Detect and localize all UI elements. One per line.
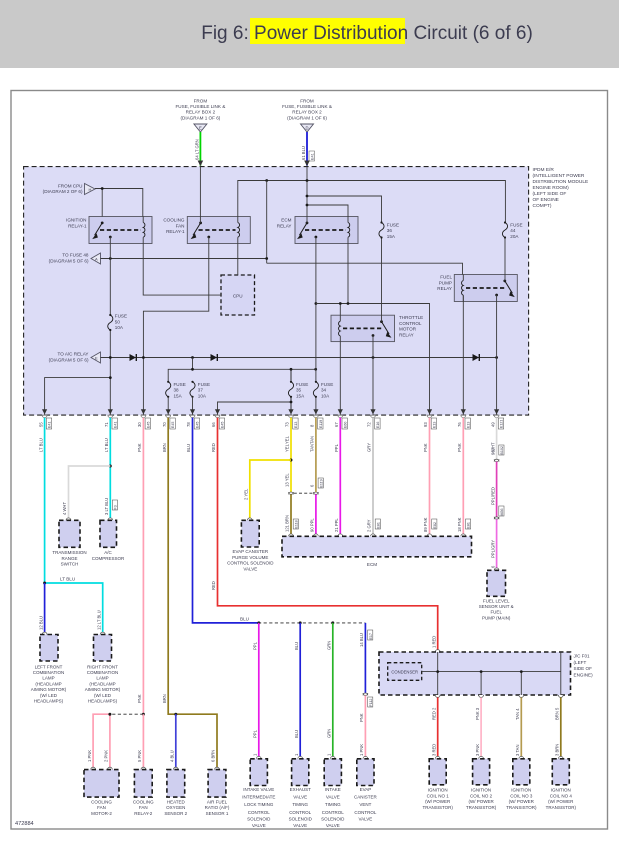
IPDM E/R label (533, 167, 589, 209)
svg-text:E13: E13 (466, 422, 470, 428)
svg-text:M36: M36 (500, 509, 504, 516)
svg-text:TO A/C RELAY: TO A/C RELAY (58, 352, 89, 357)
pin 66 (E45) RED (211, 409, 224, 452)
fuse F36 15A (379, 223, 384, 238)
svg-text:TRANSISTOR): TRANSISTOR) (546, 805, 577, 810)
wire 61 BLU (vertical, into IPDM) (306, 132, 308, 166)
svg-text:COIL NO 3: COIL NO 3 (510, 793, 533, 798)
pin 71 (E41) LT BLU (104, 409, 117, 452)
wire YEL pin73 to purge valve and ECM (290, 418, 292, 492)
wire BLU tail to evap vent valve (364, 623, 366, 693)
svg-text:FUSE, FUSIBLE LINK &: FUSE, FUSIBLE LINK & (176, 104, 226, 109)
svg-text:(LEFT: (LEFT (574, 660, 587, 665)
svg-text:1 RED: 1 RED (431, 636, 436, 648)
connector arrow D (from fuse box, right) (282, 99, 332, 133)
wire PNK to cooling fan relay-2 (142, 714, 144, 769)
svg-text:E60: E60 (343, 422, 347, 428)
wire splice link (dashed) (110, 713, 143, 715)
svg-text:E121: E121 (500, 420, 504, 428)
wire PPL pin67 to ECM pin 21 (339, 418, 341, 536)
svg-text:DISTRIBUTION MODULE: DISTRIBUTION MODULE (533, 179, 589, 185)
svg-text:(W/ LED: (W/ LED (40, 693, 58, 698)
svg-text:3 TAN: 3 TAN (515, 745, 520, 756)
svg-text:COOLING: COOLING (133, 800, 154, 805)
svg-text:30: 30 (137, 422, 142, 427)
svg-text:LOCK TIMING: LOCK TIMING (244, 802, 274, 807)
J/C bottom pins (435, 695, 563, 697)
svg-text:(HEADLAMP: (HEADLAMP (35, 681, 61, 686)
svg-text:38: 38 (174, 388, 180, 393)
svg-text:FUSE: FUSE (174, 382, 186, 387)
svg-text:2 YEL: 2 YEL (244, 488, 249, 500)
wire PPL to ECM pin 90 (315, 494, 317, 536)
svg-text:A/C: A/C (104, 550, 112, 555)
svg-text:TRANSISTOR): TRANSISTOR) (466, 805, 497, 810)
wire PNK to cooling fan motor pins (93, 714, 110, 769)
svg-text:12 LT BLU: 12 LT BLU (96, 610, 101, 630)
svg-text:ENGINE): ENGINE) (574, 672, 594, 677)
svg-text:2 PNK: 2 PNK (104, 750, 109, 762)
svg-text:90 PPL: 90 PPL (310, 518, 315, 532)
motor COOLING FAN MOTOR-2 (84, 767, 119, 816)
svg-text:LT BLU: LT BLU (38, 438, 43, 452)
svg-text:IGNITION: IGNITION (551, 788, 571, 793)
svg-text:36: 36 (387, 228, 393, 233)
wire fuel pump coil to pin 76 (462, 295, 464, 415)
wire GRY pin72 to ECM pin 2 (372, 418, 374, 536)
svg-text:BRN: BRN (162, 694, 167, 703)
relay THROTTLE CONTROL MOTOR RELAY (331, 315, 423, 342)
svg-text:FUSE: FUSE (510, 222, 522, 227)
valve EXHAUST VALVE TIMING CONTROL SOLENOID VALVE (289, 756, 313, 828)
svg-text:3 LT BLU: 3 LT BLU (104, 498, 109, 515)
svg-text:4 BLU: 4 BLU (170, 750, 175, 762)
svg-text:FUSE: FUSE (198, 382, 210, 387)
svg-text:COOLING: COOLING (163, 218, 185, 223)
svg-text:COMBINATION: COMBINATION (87, 670, 118, 675)
svg-text:E41: E41 (113, 422, 117, 428)
svg-text:(DIAGRAM 1 OF 6): (DIAGRAM 1 OF 6) (287, 115, 327, 120)
svg-text:FUEL: FUEL (440, 275, 452, 280)
wire fuse bus feed (168, 358, 316, 382)
svg-text:E16: E16 (376, 422, 380, 428)
svg-text:VALVE: VALVE (326, 823, 340, 828)
svg-text:ECM: ECM (281, 218, 291, 223)
ignition coil IGNITION COIL NO 3 (506, 756, 537, 809)
svg-text:IGNITION: IGNITION (66, 218, 86, 223)
svg-text:GRY: GRY (367, 443, 372, 452)
motor A/C COMPRESSOR (92, 518, 125, 561)
svg-text:CONTROL: CONTROL (354, 810, 376, 815)
svg-text:HEADLAMPS): HEADLAMPS) (34, 699, 64, 704)
wire PNK pin93 to ECM pin 89 (429, 418, 431, 536)
svg-text:472884: 472884 (15, 821, 34, 827)
wire fuel pump contact to pin 49 (496, 295, 498, 415)
wire BLU to heated oxygen sensor 2 (175, 714, 177, 769)
lamp LEFT FRONT COMBINATION (31, 632, 67, 703)
svg-text:FUSE: FUSE (296, 382, 308, 387)
svg-text:E13: E13 (433, 422, 437, 428)
svg-text:(HEADLAMP: (HEADLAMP (89, 681, 115, 686)
arrow FROM CPU (DIAGRAM 2 OF 6) (43, 183, 95, 194)
svg-text:E45: E45 (146, 422, 150, 428)
svg-text:49: 49 (490, 422, 495, 427)
svg-text:5 PNK: 5 PNK (137, 750, 142, 762)
svg-text:LT BLU: LT BLU (104, 438, 109, 452)
svg-text:71: 71 (104, 422, 109, 427)
wire PNK pin76 to ECM pin 18 (462, 418, 464, 536)
svg-text:PUMP: PUMP (439, 280, 452, 285)
svg-text:LAMP: LAMP (96, 676, 108, 681)
svg-text:TRANSISTOR): TRANSISTOR) (422, 805, 453, 810)
wire RED pin66 to J/C F01 (218, 418, 438, 652)
junction box J/C F01 (379, 650, 593, 695)
fuse F44 20A (502, 223, 507, 238)
wire y303 ECM contact to throttle coil and pin 93 (316, 244, 430, 416)
wire LT BLU pin71 to A/C compressor (109, 418, 111, 520)
svg-text:VALVE: VALVE (293, 795, 307, 800)
svg-text:(W/ POWER: (W/ POWER (468, 799, 494, 804)
svg-text:COMBINATION: COMBINATION (33, 670, 64, 675)
wire branch to FUSE 36 (307, 196, 382, 223)
svg-text:E45: E45 (221, 422, 225, 428)
svg-text:FAN: FAN (176, 223, 185, 228)
svg-text:CONDENSER: CONDENSER (391, 670, 418, 675)
svg-text:HEATED: HEATED (167, 800, 186, 805)
wire ignition relay contact down through FUSE 50 to pin 71 (109, 237, 111, 415)
wire throttle coil to pin 67 (339, 342, 341, 415)
svg-text:(W/ POWER: (W/ POWER (548, 799, 574, 804)
svg-text:PUMP (MAIN): PUMP (MAIN) (482, 615, 511, 620)
svg-text:LAMP: LAMP (42, 676, 54, 681)
svg-text:TAN 4: TAN 4 (515, 708, 520, 720)
svg-text:CONTROL: CONTROL (248, 810, 270, 815)
svg-text:3 PNK: 3 PNK (475, 744, 480, 756)
wire BLU pin78 rail to valves (193, 418, 259, 623)
fuse F37 10A (190, 382, 195, 397)
svg-text:VALVE: VALVE (293, 823, 307, 828)
switch TRANSMISSION RANGE SWITCH (52, 518, 86, 567)
ignition coil IGNITION COIL NO 2 (466, 756, 497, 809)
valve INTAKE VALVE INTERMEDIATE LOCK TIMING CONTROL SOLENOID VALVE (242, 756, 275, 828)
wire PPL/RED segment (496, 462, 498, 517)
relay IGNITION RELAY-1 (66, 217, 152, 244)
svg-text:E41: E41 (310, 153, 314, 160)
svg-text:(W/ LED: (W/ LED (94, 693, 112, 698)
svg-text:INTAKE: INTAKE (325, 787, 341, 792)
svg-text:GRN: GRN (327, 729, 332, 738)
svg-text:FUSE: FUSE (387, 222, 399, 227)
wire cooling fan coil to CPU (237, 244, 239, 276)
wire PPL to intake valve intermediate lock (258, 623, 260, 759)
wire BLU to left lamp (44, 583, 46, 634)
relay FUEL PUMP RELAY (437, 275, 517, 302)
diode D1 on A/C rail (130, 354, 137, 361)
svg-text:76: 76 (457, 422, 462, 427)
svg-text:THROTTLE: THROTTLE (399, 315, 423, 320)
pin 72 (E16) GRY (367, 409, 380, 452)
svg-text:4 WHT: 4 WHT (62, 502, 67, 515)
svg-text:RED: RED (211, 443, 216, 452)
svg-text:YEL: YEL (285, 435, 290, 444)
svg-text:COIL NO 1: COIL NO 1 (427, 793, 450, 798)
svg-text:37: 37 (198, 388, 204, 393)
svg-text:89 PNK: 89 PNK (423, 517, 428, 532)
pin 78 (E45) BLU (186, 409, 199, 452)
svg-text:RELAY-2: RELAY-2 (134, 811, 153, 816)
svg-text:RELAY: RELAY (437, 286, 452, 291)
svg-text:61 BLU: 61 BLU (301, 146, 306, 160)
diode D3 on A/C rail (473, 354, 480, 361)
pin 30 (E45) PNK (137, 409, 150, 452)
svg-text:CONTROL SOLENOID: CONTROL SOLENOID (227, 561, 274, 566)
svg-text:TRANSMISSION: TRANSMISSION (52, 550, 86, 555)
diode D2 on A/C rail (211, 354, 218, 361)
pin 55 (E41) LT BLU (38, 409, 51, 452)
svg-text:FROM CPU: FROM CPU (58, 183, 83, 188)
svg-text:44: 44 (510, 228, 516, 233)
svg-text:RELAY: RELAY (399, 332, 414, 337)
svg-text:RATIO (A/F): RATIO (A/F) (205, 805, 230, 810)
svg-text:18 PNK: 18 PNK (457, 517, 462, 532)
wire cooling fan contact zigzag to pin 30 (143, 237, 208, 415)
svg-text:15A: 15A (174, 393, 183, 398)
svg-text:TAN: TAN (310, 444, 315, 452)
svg-text:67: 67 (334, 422, 339, 427)
svg-text:SOLENOID: SOLENOID (247, 816, 271, 821)
svg-text:E: E (199, 125, 202, 130)
ignition coil IGNITION COIL NO 4 (546, 756, 577, 809)
wire PNK pin30 down to cooling fan group (142, 418, 144, 715)
wire FUSE 36 to throttle relay switch (381, 237, 383, 321)
svg-text:VALVE: VALVE (326, 795, 340, 800)
svg-text:10A: 10A (115, 325, 124, 330)
header band (0, 0, 619, 68)
svg-text:BLU: BLU (294, 642, 299, 650)
svg-text:AIMING MOTOR): AIMING MOTOR) (85, 687, 121, 692)
ignition coil IGNITION COIL NO 1 (422, 756, 453, 809)
relay COOLING FAN RELAY-2 (133, 767, 154, 816)
svg-text:66: 66 (211, 422, 216, 427)
svg-text:RED 2: RED 2 (431, 707, 436, 720)
svg-text:73: 73 (285, 422, 290, 427)
svg-text:(W/ POWER: (W/ POWER (425, 799, 451, 804)
svg-text:PPL/RED: PPL/RED (490, 487, 495, 505)
svg-text:20A: 20A (510, 234, 519, 239)
svg-text:SENSOR 1: SENSOR 1 (206, 811, 229, 816)
sensor HEATED OXYGEN SENSOR 2 (164, 767, 187, 816)
svg-text:121 BRN: 121 BRN (285, 515, 290, 532)
svg-text:MOTOR-2: MOTOR-2 (91, 811, 112, 816)
svg-text:(DIAGRAM 5 OF 6): (DIAGRAM 5 OF 6) (49, 258, 89, 263)
wire PPL/GRY segment (496, 519, 498, 570)
svg-text:RIGHT FRONT: RIGHT FRONT (87, 664, 118, 669)
svg-text:FROM: FROM (194, 99, 208, 104)
svg-text:13 YEL: 13 YEL (285, 473, 290, 487)
sensor AIR FUEL RATIO (A/F) SENSOR 1 (205, 767, 230, 816)
CPU U1 (221, 275, 255, 315)
valve INTAKE VALVE TIMING CONTROL SOLENOID VALVE (321, 756, 345, 828)
wire 64 LT GRN (vertical, into IPDM) (199, 132, 201, 166)
wire BLU to exhaust valve (299, 623, 301, 759)
svg-text:VALVE: VALVE (243, 566, 257, 571)
valve EVAP CANISTER PURGE VOLUME CONTROL SOLENOID VALVE (227, 518, 274, 571)
fuse F38 15A (166, 382, 171, 397)
wire PNK to evap vent valve (364, 695, 366, 758)
svg-text:(DIAGRAM 5 OF 6): (DIAGRAM 5 OF 6) (49, 357, 89, 362)
wire PNK to ignition coil no 2 (480, 697, 482, 758)
pin 8 (E119) TAN (310, 409, 323, 452)
IPDM E/R box (24, 167, 529, 416)
svg-text:64 LT GRN: 64 LT GRN (195, 139, 200, 160)
svg-text:FUEL: FUEL (490, 610, 502, 615)
svg-text:PPL: PPL (253, 641, 258, 650)
wire ECM relay contact down to pin 8 (315, 237, 317, 415)
svg-text:J/C F01: J/C F01 (574, 654, 591, 659)
svg-text:SIDE OF: SIDE OF (574, 666, 593, 671)
svg-text:RED: RED (211, 581, 216, 590)
svg-text:ENGINE ROOM): ENGINE ROOM) (533, 185, 570, 191)
svg-text:FROM: FROM (300, 99, 314, 104)
connector pass-through to ECM harness (289, 492, 319, 494)
svg-text:H: H (89, 187, 92, 192)
svg-text:FUSE, FUSIBLE LINK &: FUSE, FUSIBLE LINK & (282, 104, 332, 109)
pin 67 (E60) PPL (334, 409, 347, 452)
svg-text:EVAP CANISTER: EVAP CANISTER (233, 549, 269, 554)
svg-text:BLU: BLU (186, 444, 191, 452)
svg-text:IGNITION: IGNITION (471, 788, 491, 793)
svg-text:COIL NO 4: COIL NO 4 (550, 793, 573, 798)
capacitor CONDENSER (388, 663, 422, 681)
svg-text:E118: E118 (294, 520, 298, 528)
svg-text:E45: E45 (196, 422, 200, 428)
svg-text:VALVE: VALVE (252, 823, 266, 828)
svg-text:LT BLU: LT BLU (60, 577, 75, 582)
svg-text:PURGE VOLUME: PURGE VOLUME (232, 555, 268, 560)
wire FROM CPU to ignition relay (95, 189, 143, 217)
svg-text:21 PPL: 21 PPL (334, 518, 339, 532)
svg-text:PNK: PNK (423, 443, 428, 452)
svg-text:2 GRY: 2 GRY (367, 519, 372, 532)
wire BRN to ECM pin 121 (290, 494, 292, 536)
svg-text:96J: 96J (490, 448, 495, 455)
svg-text:COIL NO 2: COIL NO 2 (470, 793, 493, 798)
svg-text:D: D (305, 125, 308, 130)
svg-text:FUSE: FUSE (321, 382, 333, 387)
svg-text:AIR FUEL: AIR FUEL (207, 800, 228, 805)
svg-text:E81: E81 (467, 522, 471, 528)
fuse F50 10A (108, 315, 113, 330)
wire ignition coil to CPU (143, 244, 221, 296)
wire branch to pin 55 (45, 378, 111, 415)
wire harness link (dashed) (258, 622, 365, 624)
wire RED to ignition coil no 1 (437, 697, 439, 758)
svg-text:SENSOR UNIT &: SENSOR UNIT & (479, 604, 514, 609)
svg-text:CANISTER: CANISTER (354, 795, 378, 800)
svg-text:IGNITION: IGNITION (511, 788, 531, 793)
arrow TO FUSE 48 (DIAGRAM 5 OF 6) (49, 253, 101, 265)
arrow TO A/C RELAY (DIAGRAM 5 OF 6) (49, 352, 101, 364)
svg-text:SOLENOID: SOLENOID (321, 816, 345, 821)
svg-text:14 BLU: 14 BLU (359, 633, 364, 647)
svg-text:RELAY: RELAY (277, 223, 292, 228)
svg-text:FUSE: FUSE (115, 314, 127, 319)
svg-text:BLU: BLU (240, 616, 249, 621)
svg-text:TRANSISTOR): TRANSISTOR) (506, 805, 537, 810)
svg-text:(W/ POWER: (W/ POWER (509, 799, 535, 804)
node splice HO2S (174, 713, 177, 716)
sensor FUEL LEVEL SENSOR UNIT & FUEL PUMP (MAIN) (479, 568, 514, 620)
svg-text:MOTOR: MOTOR (399, 327, 417, 332)
svg-text:F3: F3 (114, 505, 118, 509)
svg-text:FUEL LEVEL: FUEL LEVEL (483, 598, 510, 603)
wire TAN to ignition coil no 3 (520, 697, 522, 758)
svg-text:CONTROL: CONTROL (289, 810, 311, 815)
svg-text:COMPT): COMPT) (533, 203, 552, 209)
svg-text:CONTROL: CONTROL (399, 321, 422, 326)
relay ECM RELAY (277, 217, 358, 244)
wire BLU inside to ECM relay switch (306, 167, 308, 223)
svg-text:INTAKE VALVE: INTAKE VALVE (243, 787, 274, 792)
svg-text:(DIAGRAM 2 OF 6): (DIAGRAM 2 OF 6) (43, 189, 83, 194)
svg-text:INTERMEDIATE: INTERMEDIATE (242, 795, 275, 800)
svg-text:PPL: PPL (253, 729, 258, 738)
svg-text:70: 70 (162, 422, 167, 427)
svg-text:TO FUSE 48: TO FUSE 48 (62, 253, 89, 258)
svg-text:50: 50 (115, 319, 121, 324)
ECM box (282, 534, 472, 567)
svg-text:1 PNK: 1 PNK (87, 750, 92, 762)
svg-text:E41: E41 (48, 422, 52, 428)
svg-text:35: 35 (296, 388, 302, 393)
wire LT GRN inside to cooling fan relay switch (199, 167, 201, 223)
title highlight (250, 18, 405, 44)
pin 93 (E13) PNK (423, 409, 436, 452)
svg-text:55: 55 (38, 422, 43, 427)
svg-text:1 PNK: 1 PNK (359, 744, 364, 756)
svg-text:E119: E119 (319, 420, 323, 428)
svg-text:COMPRESSOR: COMPRESSOR (92, 556, 125, 561)
pin 70 (E45) BRN (162, 409, 175, 452)
svg-text:(DIAGRAM 1 OF 6): (DIAGRAM 1 OF 6) (180, 115, 220, 120)
svg-text:E119: E119 (319, 479, 323, 487)
svg-text:HEADLAMPS): HEADLAMPS) (88, 699, 118, 704)
fuse F34 10A (313, 382, 318, 397)
svg-text:12 BLU: 12 BLU (38, 616, 43, 630)
wire WHT pin49 to fuel level sensor chain (496, 418, 498, 460)
node splice lamps (43, 582, 46, 585)
wire TO FUSE 48 rail (101, 181, 463, 275)
svg-text:PPL/GRY: PPL/GRY (490, 540, 495, 558)
svg-text:CONTROL: CONTROL (322, 810, 344, 815)
wire LT BLU pin55 to lamps (44, 418, 46, 583)
wire TO A/C RELAY rail (101, 357, 497, 359)
svg-text:(INTELLIGENT POWER: (INTELLIGENT POWER (533, 173, 585, 179)
svg-text:RELAY-1: RELAY-1 (68, 223, 87, 228)
wire WHT branch to transmission range switch (69, 466, 111, 520)
pin 73 (E13) YEL (285, 409, 298, 452)
svg-text:CPU: CPU (233, 294, 243, 299)
pin 76 (E13) PNK (457, 409, 470, 452)
svg-text:BRN 5: BRN 5 (555, 707, 560, 720)
connector inline (363, 693, 368, 695)
pin 49 (E121) WHT (490, 409, 503, 452)
svg-text:OXYGEN: OXYGEN (166, 805, 185, 810)
svg-text:15A: 15A (296, 393, 305, 398)
wire FUSE 44 to fuel pump relay switch (504, 237, 506, 281)
svg-text:BLU: BLU (294, 730, 299, 738)
svg-text:SWITCH: SWITCH (61, 562, 79, 567)
